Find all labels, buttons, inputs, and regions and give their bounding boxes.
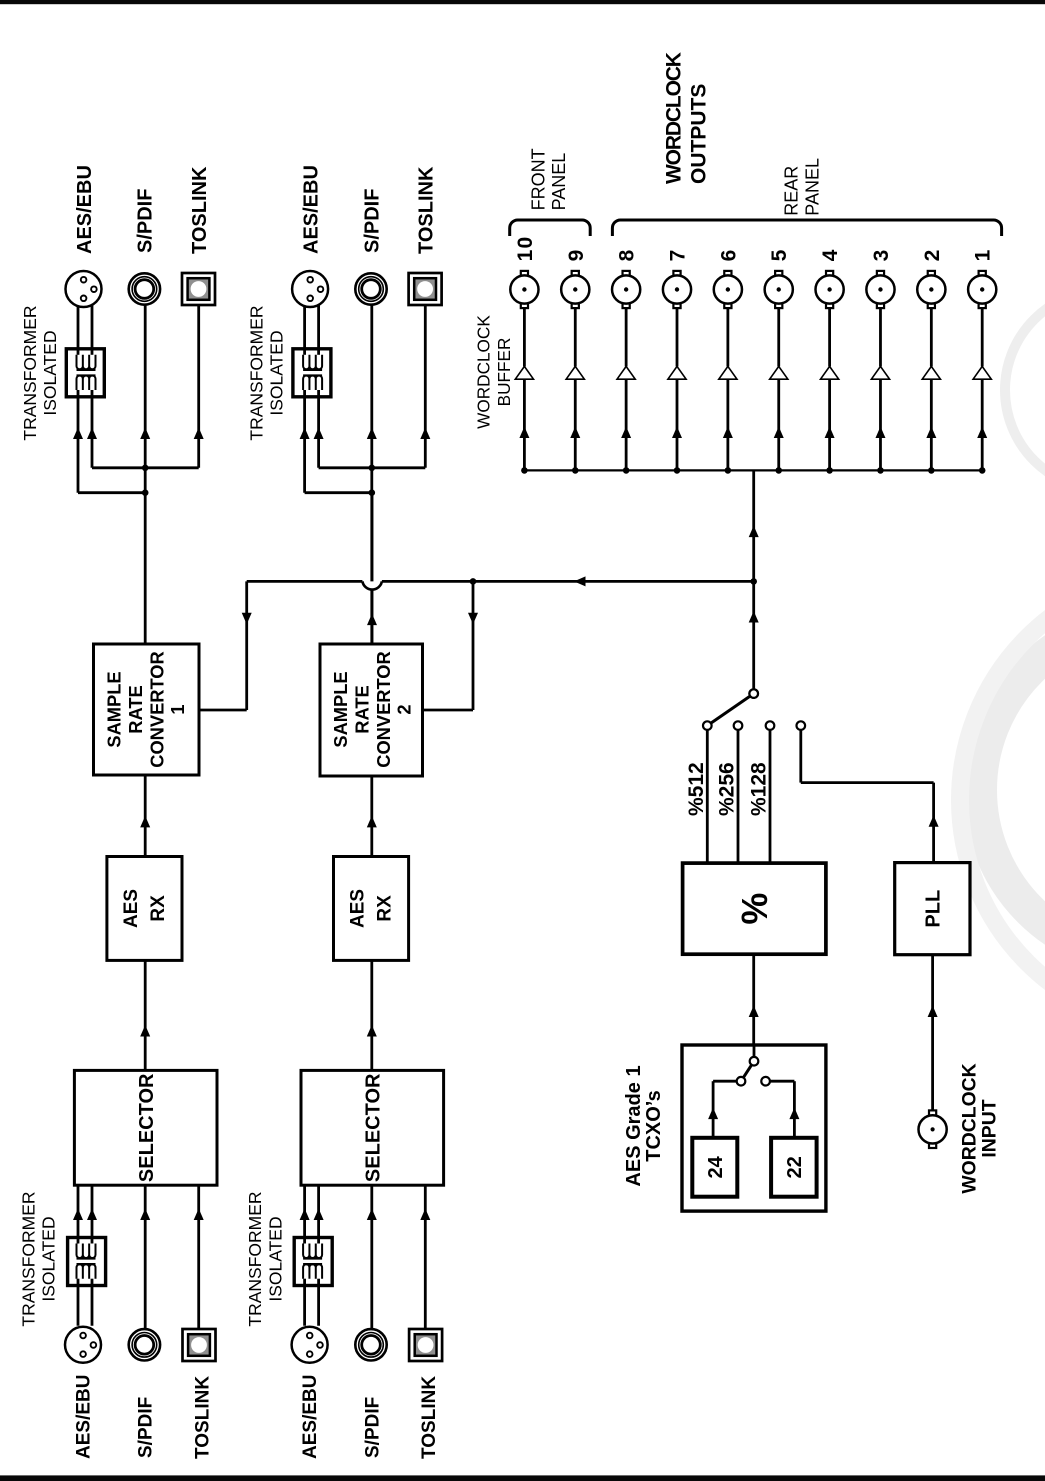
svg-text:7: 7 (667, 249, 690, 262)
svg-text:AES: AES (348, 889, 369, 928)
svg-text:RATE: RATE (352, 685, 373, 733)
svg-text:CONVERTOR: CONVERTOR (146, 651, 167, 767)
svg-text:ISOLATED: ISOLATED (40, 330, 60, 415)
svg-text:SELECTOR: SELECTOR (363, 1073, 385, 1182)
svg-text:5: 5 (768, 249, 791, 262)
svg-text:TRANSFORMER: TRANSFORMER (18, 1191, 38, 1326)
svg-text:AES: AES (121, 889, 142, 928)
svg-text:RATE: RATE (125, 685, 146, 733)
svg-text:AES Grade 1: AES Grade 1 (623, 1065, 645, 1186)
svg-text:WORDCLOCK: WORDCLOCK (474, 315, 494, 429)
svg-text:REAR: REAR (782, 166, 802, 216)
svg-text:PANEL: PANEL (802, 158, 822, 216)
svg-text:INPUT: INPUT (979, 1099, 1001, 1157)
svg-text:CONVERTOR: CONVERTOR (373, 651, 394, 767)
svg-text:10: 10 (514, 236, 537, 262)
svg-text:2: 2 (393, 704, 414, 714)
svg-text:TRANSFORMER: TRANSFORMER (246, 305, 266, 440)
svg-text:3: 3 (870, 249, 893, 262)
svg-text:WORDCLOCK: WORDCLOCK (663, 52, 686, 184)
svg-text:ISOLATED: ISOLATED (39, 1216, 59, 1301)
svg-text:S/PDIF: S/PDIF (361, 189, 383, 253)
svg-text:AES/EBU: AES/EBU (74, 1375, 95, 1459)
svg-text:S/PDIF: S/PDIF (362, 1397, 383, 1458)
svg-text:FRONT: FRONT (528, 148, 548, 210)
svg-text:TCXO’s: TCXO’s (643, 1090, 665, 1162)
svg-text:TOSLINK: TOSLINK (419, 1376, 440, 1459)
svg-text:AES/EBU: AES/EBU (300, 1375, 321, 1459)
svg-text:RX: RX (375, 895, 396, 922)
svg-text:TRANSFORMER: TRANSFORMER (245, 1191, 265, 1326)
svg-text:SAMPLE: SAMPLE (103, 671, 124, 747)
svg-text:4: 4 (819, 249, 842, 262)
svg-text:ISOLATED: ISOLATED (267, 330, 287, 415)
svg-text:AES/EBU: AES/EBU (74, 165, 96, 254)
svg-text:PANEL: PANEL (549, 153, 569, 211)
svg-text:SAMPLE: SAMPLE (330, 671, 351, 747)
svg-text:TOSLINK: TOSLINK (415, 166, 437, 254)
svg-text:%128: %128 (748, 762, 771, 816)
svg-text:8: 8 (616, 249, 639, 262)
svg-text:AES/EBU: AES/EBU (300, 165, 322, 254)
svg-text:S/PDIF: S/PDIF (135, 189, 157, 253)
svg-text:TRANSFORMER: TRANSFORMER (20, 305, 40, 440)
svg-text:9: 9 (565, 249, 588, 262)
svg-text:TOSLINK: TOSLINK (193, 1376, 214, 1459)
svg-text:PLL: PLL (923, 890, 945, 928)
svg-text:S/PDIF: S/PDIF (136, 1397, 157, 1458)
svg-text:1: 1 (972, 249, 995, 262)
svg-text:%256: %256 (716, 762, 739, 816)
svg-text:24: 24 (705, 1155, 727, 1178)
svg-text:2: 2 (921, 249, 944, 262)
svg-text:OUTPUTS: OUTPUTS (688, 84, 711, 184)
svg-text:1: 1 (167, 704, 188, 714)
svg-text:ISOLATED: ISOLATED (265, 1216, 285, 1301)
svg-text:SELECTOR: SELECTOR (136, 1073, 158, 1182)
svg-text:TOSLINK: TOSLINK (189, 166, 211, 254)
svg-text:%: % (734, 893, 775, 925)
svg-text:RX: RX (148, 895, 169, 922)
svg-text:6: 6 (717, 249, 740, 262)
svg-text:22: 22 (784, 1156, 806, 1178)
svg-text:%512: %512 (685, 762, 708, 816)
svg-text:BUFFER: BUFFER (494, 338, 514, 407)
svg-text:WORDCLOCK: WORDCLOCK (959, 1063, 981, 1193)
